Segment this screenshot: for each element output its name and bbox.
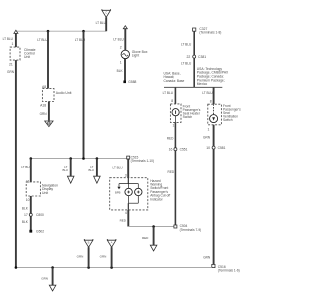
svg-text:C551: C551 xyxy=(180,148,188,152)
svg-text:Switch: Switch xyxy=(223,118,233,122)
svg-text:4: 4 xyxy=(125,211,127,215)
svg-text:C381: C381 xyxy=(198,55,206,59)
svg-text:LT BLU: LT BLU xyxy=(37,38,48,42)
svg-text:Switch: Switch xyxy=(183,115,193,119)
svg-text:Unit: Unit xyxy=(42,191,48,195)
svg-text:RED: RED xyxy=(142,236,149,240)
svg-text:(Terminals 1-10): (Terminals 1-10) xyxy=(131,159,154,163)
svg-text:22: 22 xyxy=(187,55,191,59)
svg-text:GRN: GRN xyxy=(100,254,107,258)
svg-text:(Terminals 1-6): (Terminals 1-6) xyxy=(218,269,240,273)
svg-text:LT BLU: LT BLU xyxy=(181,42,192,46)
svg-text:LT BLU: LT BLU xyxy=(3,37,14,41)
svg-text:GRN: GRN xyxy=(41,276,48,280)
svg-text:GRN: GRN xyxy=(40,112,48,116)
svg-text:Light: Light xyxy=(132,54,139,58)
svg-text:LT BLU: LT BLU xyxy=(96,21,107,25)
svg-text:8: 8 xyxy=(210,99,212,103)
svg-text:A18: A18 xyxy=(40,103,46,107)
svg-text:BLK: BLK xyxy=(117,69,124,73)
svg-text:G588: G588 xyxy=(128,80,136,84)
svg-text:Unit: Unit xyxy=(24,55,30,59)
svg-text:Audio Unit: Audio Unit xyxy=(56,91,72,95)
svg-text:BLU: BLU xyxy=(62,168,68,172)
svg-text:LT BLU: LT BLU xyxy=(113,165,123,169)
svg-text:1: 1 xyxy=(173,124,175,128)
svg-text:BLK: BLK xyxy=(22,220,29,224)
svg-text:C581: C581 xyxy=(218,146,226,150)
svg-text:GRN: GRN xyxy=(77,254,84,258)
svg-text:G502: G502 xyxy=(36,230,44,234)
svg-text:8: 8 xyxy=(171,99,173,103)
svg-text:GRN: GRN xyxy=(203,256,211,260)
svg-text:C: C xyxy=(105,11,107,15)
svg-text:10: 10 xyxy=(26,198,30,202)
svg-text:1: 1 xyxy=(120,61,122,65)
svg-text:C800: C800 xyxy=(36,213,44,217)
svg-text:BLK: BLK xyxy=(22,207,29,211)
svg-text:RED: RED xyxy=(168,170,175,174)
svg-text:BPB: BPB xyxy=(115,190,121,194)
svg-text:A: A xyxy=(111,241,113,245)
svg-text:(Terminals 1-8): (Terminals 1-8) xyxy=(199,31,221,35)
svg-text:Indicator: Indicator xyxy=(150,197,163,201)
svg-text:GRN: GRN xyxy=(7,70,15,74)
svg-text:3: 3 xyxy=(125,174,127,178)
svg-text:1: 1 xyxy=(12,42,14,46)
svg-text:11: 11 xyxy=(26,179,30,183)
svg-text:B: B xyxy=(88,241,90,245)
svg-text:LT BLU: LT BLU xyxy=(181,61,192,65)
svg-text:Mexico: Mexico xyxy=(197,82,208,86)
svg-text:LT BLU: LT BLU xyxy=(113,37,124,41)
svg-text:LT BLU: LT BLU xyxy=(21,165,31,169)
svg-text:1: 1 xyxy=(208,127,210,131)
svg-text:16: 16 xyxy=(169,148,173,152)
svg-text:GRN: GRN xyxy=(203,136,211,140)
svg-text:17: 17 xyxy=(24,213,28,217)
svg-text:LT BLU: LT BLU xyxy=(202,91,213,95)
svg-text:21: 21 xyxy=(9,62,13,66)
svg-text:Canada: Base: Canada: Base xyxy=(164,79,185,83)
svg-text:LT BLU: LT BLU xyxy=(75,38,86,42)
svg-text:(Terminals 7-9): (Terminals 7-9) xyxy=(180,228,202,232)
svg-text:2: 2 xyxy=(120,45,122,49)
svg-text:LT BLU: LT BLU xyxy=(163,91,174,95)
svg-text:RED: RED xyxy=(120,218,127,222)
svg-text:A8: A8 xyxy=(42,85,46,89)
svg-text:RED: RED xyxy=(167,136,174,140)
svg-text:10: 10 xyxy=(206,146,210,150)
svg-text:BLU: BLU xyxy=(88,168,94,172)
